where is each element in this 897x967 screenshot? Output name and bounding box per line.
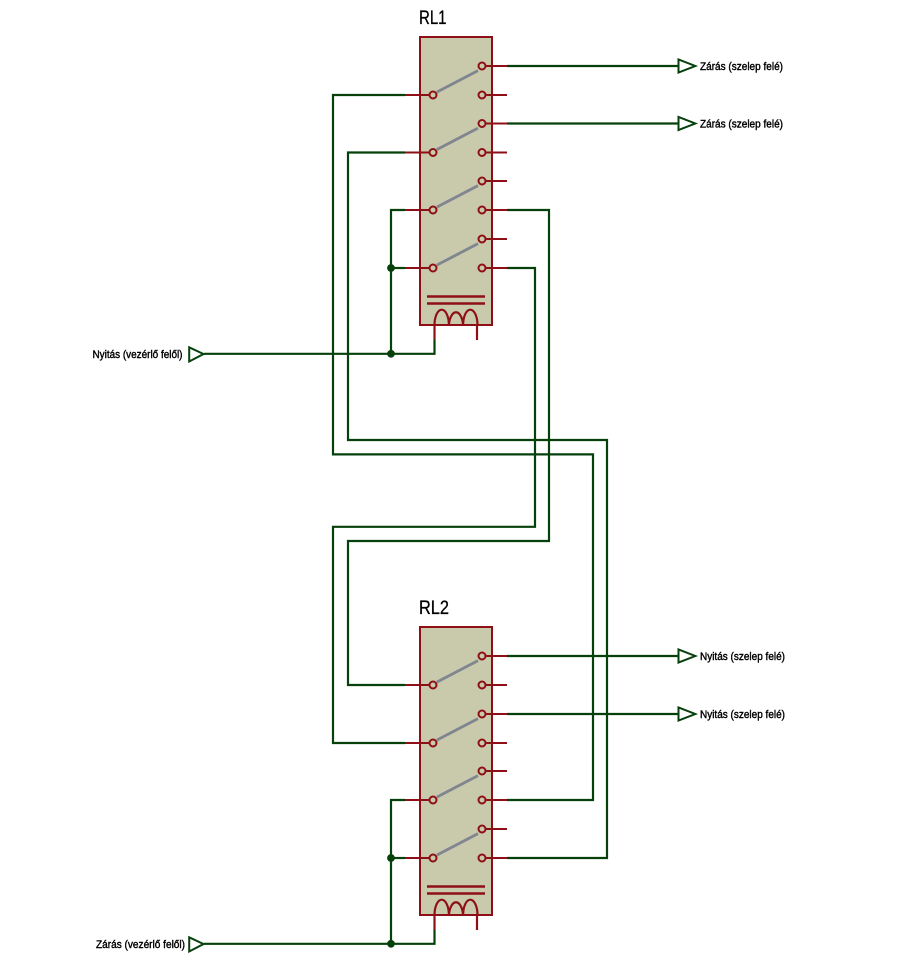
svg-text:Nyitás (szelep felé): Nyitás (szelep felé) — [700, 709, 785, 721]
svg-text:RL1: RL1 — [419, 8, 447, 29]
svg-text:RL2: RL2 — [419, 598, 449, 619]
svg-text:Zárás (szelep felé): Zárás (szelep felé) — [700, 119, 783, 131]
svg-text:Zárás (szelep felé): Zárás (szelep felé) — [700, 61, 783, 73]
svg-text:Nyitás (szelep felé): Nyitás (szelep felé) — [700, 651, 785, 663]
svg-text:Zárás (vezérlő felől): Zárás (vezérlő felől) — [96, 939, 185, 951]
svg-text:Nyitás (vezérlő felől): Nyitás (vezérlő felől) — [93, 349, 183, 361]
